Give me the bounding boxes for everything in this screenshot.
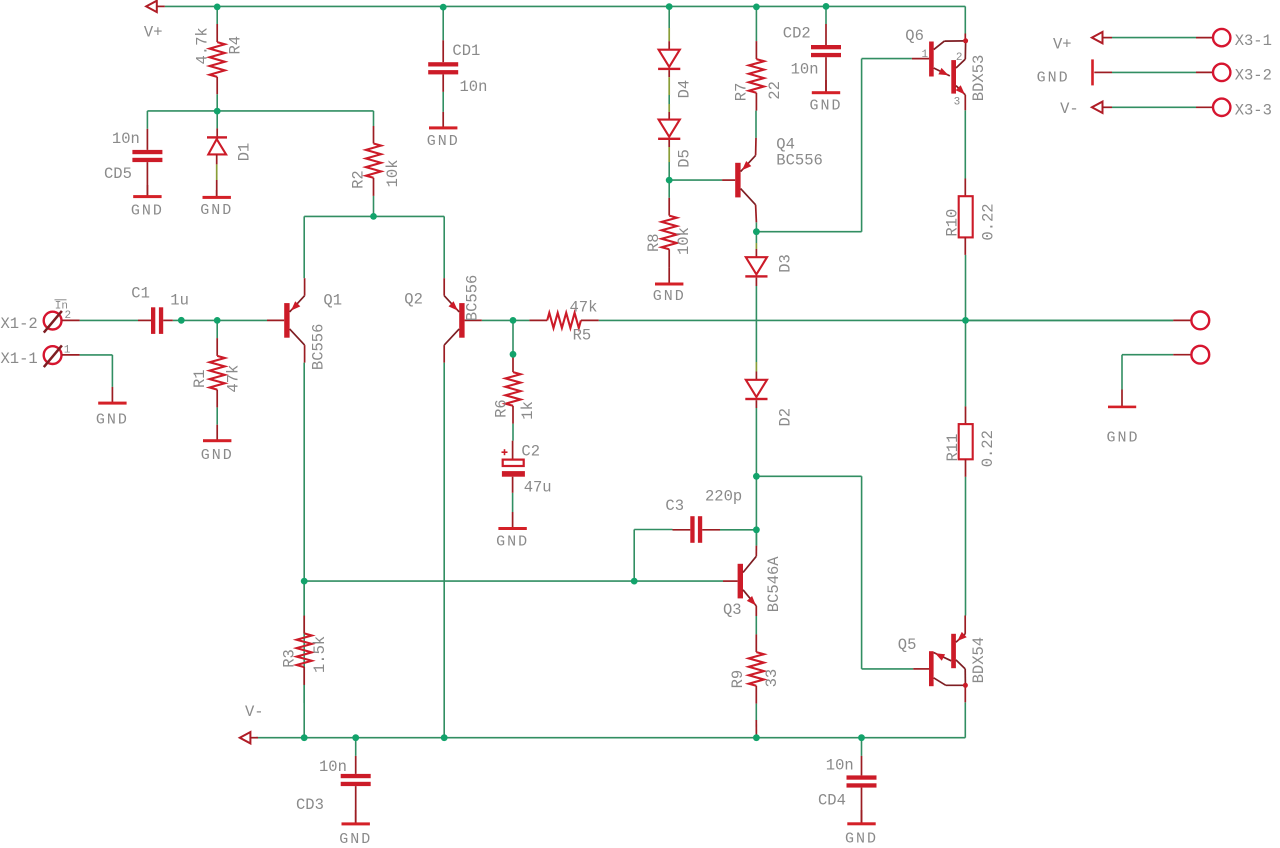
svg-text:GND: GND — [339, 831, 372, 848]
svg-text:10n: 10n — [319, 758, 347, 776]
wire R1 top — [216, 320, 218, 338]
junction — [753, 4, 760, 11]
wire D4 to V+ rail — [668, 6, 670, 28]
connector X1-2 input — [44, 312, 62, 330]
svg-text:Q2: Q2 — [404, 291, 423, 309]
wire node row R4/CD5/D1/R2 — [147, 110, 373, 112]
svg-text:0.22: 0.22 — [980, 203, 998, 240]
junction — [214, 108, 221, 115]
wire Q2 base to node — [482, 319, 513, 321]
wire CD4 drop — [861, 738, 863, 756]
svg-text:Q6: Q6 — [905, 27, 924, 45]
svg-text:C2: C2 — [521, 442, 540, 460]
svg-text:D5: D5 — [676, 149, 694, 168]
svg-text:GND: GND — [200, 202, 233, 219]
svg-text:3: 3 — [954, 96, 961, 108]
svg-text:X3-1: X3-1 — [1235, 32, 1272, 50]
transistor Q6 BDX53 NPN darlington — [912, 58, 929, 60]
junction — [631, 578, 638, 585]
transistor Q2 BC556 PNP (mirrored) — [465, 319, 482, 321]
junction — [441, 734, 448, 741]
wire D4-D5 node to Q4 base — [669, 179, 722, 181]
svg-text:GND: GND — [427, 133, 460, 150]
ground CD3 — [355, 810, 357, 824]
transistor Q5 BDX54 PNP darlington — [913, 668, 929, 670]
svg-text:D1: D1 — [236, 143, 254, 162]
svg-text:R11: R11 — [944, 434, 962, 462]
svg-text:1: 1 — [64, 345, 71, 357]
wire Q1 collector column to bottom rail — [303, 363, 305, 738]
wire Q5 base run — [756, 475, 861, 477]
junction — [858, 734, 865, 741]
junction — [352, 734, 359, 741]
V- supply arrow at X3-3 — [1092, 102, 1103, 113]
svg-text:D3: D3 — [777, 254, 795, 273]
capacitor CD5 10n — [146, 129, 148, 150]
svg-text:GND: GND — [1037, 69, 1070, 86]
wire R10 bottom to output node — [965, 255, 967, 321]
svg-text:10n: 10n — [460, 78, 488, 96]
ground CD4 — [861, 810, 863, 824]
svg-text:4.7k: 4.7k — [194, 27, 212, 64]
svg-text:BC556: BC556 — [463, 275, 481, 322]
junction — [440, 4, 447, 11]
svg-text:10n: 10n — [826, 757, 854, 775]
capacitor CD1 10n — [442, 40, 444, 62]
connector X2-1 output — [1173, 319, 1191, 321]
ground CD5 — [146, 185, 148, 197]
junction — [753, 526, 760, 533]
ground R8 — [668, 267, 670, 284]
junction — [510, 317, 517, 324]
capacitor C2 47u polarized — [512, 441, 514, 460]
resistor R9 33 — [755, 634, 757, 652]
capacitor CD4 10n — [861, 756, 863, 776]
wire R11 bottom to Q5 emitter — [965, 477, 967, 616]
wire R4 to V+ rail — [216, 6, 218, 24]
wire R2 top — [373, 111, 375, 126]
svg-text:C3: C3 — [665, 497, 684, 515]
svg-text:GND: GND — [496, 534, 529, 551]
wire Q5 collector to bottom rail — [964, 702, 966, 737]
wire C3 right — [720, 529, 756, 531]
svg-text:0.22: 0.22 — [979, 430, 997, 467]
svg-text:Q5: Q5 — [898, 636, 917, 654]
svg-text:R6: R6 — [492, 399, 510, 418]
svg-text:R8: R8 — [645, 233, 663, 252]
wire D2 bottom to node — [755, 408, 757, 476]
resistor R5 47k — [529, 319, 547, 321]
svg-text:CD4: CD4 — [818, 792, 846, 810]
junction — [753, 473, 760, 480]
wire R5 right to output rail — [599, 319, 1173, 321]
wire R3 bottom — [303, 685, 305, 703]
wire R5 left — [513, 319, 529, 321]
diode D4 — [668, 28, 670, 41]
svg-text:R3: R3 — [280, 649, 298, 668]
svg-text:BDX53: BDX53 — [970, 55, 988, 102]
svg-text:GND: GND — [809, 98, 842, 115]
resistor R3 1.5k — [303, 616, 305, 634]
resistor R8 10k — [668, 198, 670, 216]
connector X3-1 — [1196, 37, 1213, 39]
wire R2 bottom to emitter rail — [373, 196, 375, 217]
svg-text:R10: R10 — [944, 209, 962, 237]
resistor R6 1k — [512, 354, 514, 372]
ground at output connector — [1121, 390, 1123, 407]
svg-text:GND: GND — [201, 447, 234, 464]
wire C1 to Q1 base — [173, 319, 267, 321]
wire D5 bottom node to R8 — [668, 180, 670, 198]
ground symbol at X3-2 (rotated) — [1094, 71, 1105, 73]
resistor R1 47k — [216, 338, 218, 356]
svg-text:GND: GND — [1106, 430, 1139, 447]
svg-text:BC556: BC556 — [310, 324, 328, 371]
svg-text:1k: 1k — [519, 401, 537, 420]
svg-text:V-: V- — [1060, 100, 1079, 118]
diode D3 — [755, 243, 757, 249]
wire Q1 emitter column — [303, 216, 305, 278]
junction Q5 collector tie — [963, 683, 968, 688]
ground D1 — [216, 190, 218, 197]
svg-text:BDX54: BDX54 — [970, 637, 988, 684]
transistor Q3 BC546A NPN — [723, 580, 738, 582]
connector X3-2 — [1105, 71, 1112, 73]
svg-text:V+: V+ — [1053, 35, 1072, 53]
svg-text:X3-2: X3-2 — [1235, 67, 1272, 85]
wire X3-2 GND feed — [1112, 71, 1196, 73]
wire V+ top rail — [165, 5, 966, 7]
transistor Q4 BC556 PNP — [722, 179, 735, 181]
svg-text:D4: D4 — [676, 80, 694, 99]
diode D1 (pointing up) — [216, 128, 218, 139]
V+ supply arrow at X3-1 — [1092, 32, 1103, 43]
svg-text:D2: D2 — [777, 408, 795, 427]
svg-text:GND: GND — [131, 202, 164, 219]
diode D2 — [755, 362, 757, 372]
wire Q6 base run — [756, 231, 861, 233]
capacitor CD3 10n — [355, 756, 357, 774]
wire Q2 collector column to bottom rail — [443, 363, 445, 738]
svg-text:1u: 1u — [170, 292, 189, 310]
svg-text:GND: GND — [96, 411, 129, 428]
svg-text:Q3: Q3 — [723, 601, 742, 619]
wire D3 to D2 through output row — [755, 286, 757, 362]
wire C2 bottom — [512, 493, 514, 512]
junction Q6 collector tie — [963, 38, 968, 43]
wire Q4 collector node to D3 — [755, 222, 757, 243]
capacitor CD2 10n — [825, 24, 827, 45]
svg-text:R5: R5 — [573, 327, 592, 345]
junction — [301, 734, 308, 741]
svg-text:47u: 47u — [524, 478, 552, 496]
wire output pin2 to GND — [1121, 355, 1123, 390]
diode D5 — [668, 95, 670, 104]
svg-text:X1-1: X1-1 — [1, 350, 38, 368]
wire R3 top — [303, 581, 305, 616]
wire X1-1 to ground corner — [80, 354, 113, 356]
wire D1 drop — [216, 111, 218, 128]
V- supply arrow bottom left — [240, 732, 251, 743]
wire R1 bottom — [216, 407, 218, 424]
wire X3-3 V- feed — [1112, 106, 1196, 108]
transistor Q1 BC556 PNP — [267, 319, 284, 321]
wire node to C3 junction and Q3 collector — [755, 476, 757, 545]
wire V- bottom rail — [256, 737, 965, 739]
junction — [962, 317, 969, 324]
resistor R11 0.22 — [965, 406, 967, 424]
V+ supply arrow top left — [146, 1, 157, 12]
wire CD1 to V+ rail — [442, 6, 444, 40]
junction — [823, 3, 830, 10]
wire R7 top — [755, 7, 757, 41]
svg-text:V+: V+ — [144, 24, 163, 42]
junction — [370, 213, 377, 220]
capacitor C3 220p — [673, 529, 691, 531]
wire Q3 collector top — [755, 530, 757, 546]
wire R9 top to Q3 emitter — [755, 616, 757, 634]
wire CD3 drop — [355, 738, 357, 756]
wire output pin 2 row — [1122, 354, 1173, 356]
svg-text:R4: R4 — [227, 36, 245, 55]
svg-text:1.5k: 1.5k — [311, 636, 329, 673]
junction — [301, 578, 308, 585]
resistor R4 4.7k — [216, 24, 218, 42]
svg-text:R1: R1 — [191, 369, 209, 388]
svg-text:CD1: CD1 — [452, 42, 480, 60]
svg-text:33: 33 — [763, 669, 781, 688]
svg-text:BC556: BC556 — [776, 151, 823, 169]
wire C3 left branch — [634, 529, 672, 531]
svg-text:47k: 47k — [225, 365, 243, 393]
svg-text:X1-2: X1-2 — [1, 315, 38, 333]
connector X2-2 output — [1173, 354, 1191, 356]
svg-text:R2: R2 — [350, 170, 368, 189]
resistor R7 22 — [755, 41, 757, 59]
junction — [214, 317, 221, 324]
svg-text:10k: 10k — [384, 159, 402, 187]
ground C2 — [512, 512, 514, 528]
wire X3-1 V+ feed — [1112, 37, 1196, 39]
wire R6 bottom to C2 — [512, 424, 514, 441]
svg-text:22: 22 — [766, 81, 784, 100]
junction — [753, 228, 760, 235]
svg-text:1: 1 — [922, 49, 929, 61]
wire CD5 drop — [146, 111, 148, 129]
svg-text:BC546A: BC546A — [765, 556, 783, 613]
resistor R2 10k — [373, 126, 375, 144]
svg-text:220p: 220p — [705, 487, 742, 505]
ground R1 — [216, 425, 218, 441]
connector X3-3 — [1196, 106, 1213, 108]
svg-text:10n: 10n — [791, 61, 819, 79]
wire V+ rail drop to Q6 collector — [964, 6, 966, 33]
svg-text:GND: GND — [653, 288, 686, 305]
wire R4 bottom to node — [216, 94, 218, 111]
junction — [510, 351, 517, 358]
wire output node to R11 — [965, 320, 967, 406]
ground CD1 — [442, 112, 444, 128]
wire base row to Q3 — [304, 580, 634, 582]
junction — [214, 4, 221, 11]
svg-text:CD5: CD5 — [104, 165, 132, 183]
svg-text:R7: R7 — [732, 83, 750, 102]
svg-text:CD3: CD3 — [296, 796, 324, 814]
junction — [666, 177, 673, 184]
svg-text:V-: V- — [245, 703, 264, 721]
junction — [666, 3, 673, 10]
junction — [753, 734, 760, 741]
svg-text:X3-3: X3-3 — [1235, 102, 1272, 120]
svg-text:GND: GND — [845, 831, 878, 848]
wire Q1-Q2 common emitter rail — [304, 215, 444, 217]
junction — [178, 317, 185, 324]
wire CD2 to V+ rail — [825, 6, 827, 24]
wire Q6 emitter to R10 — [964, 110, 966, 178]
svg-text:2: 2 — [65, 310, 72, 322]
wire node to R6 — [512, 320, 514, 354]
ground X1-1 — [111, 387, 113, 403]
wire Q2 emitter column — [443, 216, 445, 278]
svg-text:Q1: Q1 — [323, 292, 342, 310]
svg-text:C1: C1 — [131, 285, 150, 303]
svg-text:CD2: CD2 — [783, 25, 811, 43]
svg-text:47k: 47k — [570, 298, 598, 316]
svg-text:10n: 10n — [112, 130, 140, 148]
svg-text:R9: R9 — [729, 670, 747, 689]
svg-text:10k: 10k — [675, 227, 693, 255]
wire output to speaker pin — [966, 319, 1174, 321]
ground CD2 — [825, 80, 827, 93]
resistor R10 0.22 — [964, 179, 966, 197]
capacitor C1 1u — [138, 319, 151, 321]
wire R7 bottom to Q4 emitter — [755, 111, 757, 138]
connector X1-1 input ground — [44, 346, 62, 364]
wire X1-2 to C1 — [80, 319, 138, 321]
